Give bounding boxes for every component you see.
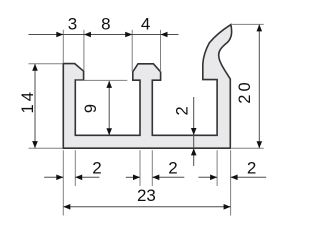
extension line: left wall top (for 14) — [29, 63, 63, 65]
dimension line: bottom-middle 2 (left tail) — [126, 176, 140, 178]
arrow: bottom-middle 2 right — [152, 175, 159, 181]
dimension line: 2 base thickness (lower) — [193, 135, 195, 166]
extension line: left wall inner edge (bottom) — [74, 150, 76, 186]
svg-text:3: 3 — [68, 14, 77, 33]
extension line: profile bottom right (for 20) — [231, 147, 263, 149]
arrow: bottom-left 2 inner — [75, 175, 82, 181]
arrow: dim 3 right / dim 8 left — [84, 32, 91, 38]
extension line: left wall outer edge (bottom) — [62, 150, 64, 215]
arrow: dim 20 bottom — [257, 141, 263, 148]
dimension line: bottom-right 2 (left tail) — [198, 176, 217, 178]
extension line: left wall head right edge — [83, 30, 85, 71]
svg-text:2: 2 — [168, 159, 177, 178]
arrow: bottom-right 2 left — [210, 175, 217, 181]
dimension line: top 3/8/4 — [29, 34, 179, 36]
extension line: profile bottom (for 14) — [29, 147, 63, 149]
dimension line: 23 overall width — [63, 206, 230, 208]
arrow: dim 9 bottom — [106, 128, 112, 135]
svg-text:2: 2 — [92, 159, 101, 178]
svg-text:4: 4 — [141, 14, 150, 33]
arrow: bottom-middle 2 left — [133, 175, 140, 181]
dimension line: 9 — [108, 81, 110, 135]
extension line: step underside (for 9) — [76, 79, 127, 81]
arrow: dim 23 left — [63, 204, 70, 210]
dimension line: bottom-right 2 (outer tail) — [231, 176, 267, 178]
extension line: right leg left edge (bottom) — [216, 150, 218, 186]
dimension line: 14 — [34, 64, 36, 148]
svg-text:9: 9 — [82, 101, 100, 113]
arrow: dim 3 left — [56, 32, 63, 38]
arrow: dim 4 right — [161, 32, 168, 38]
extruded profile cross-section body — [63, 25, 231, 149]
arrow: bottom-right 2 outer — [231, 175, 238, 181]
dimension line: bottom-left 2 (inner tail) — [75, 176, 99, 178]
arrow: dim 23 right — [224, 204, 231, 210]
arrow: dim 9 top — [106, 81, 112, 88]
arrow: dim 2 base thickness top — [191, 128, 197, 135]
extension line: right leg outer edge (bottom) — [230, 150, 232, 215]
extension line: middle stem right edge (bottom) — [151, 150, 153, 186]
svg-text:2: 2 — [173, 103, 191, 115]
extension line: left wall outer edge (top) — [62, 30, 64, 63]
svg-text:2: 2 — [247, 159, 256, 178]
dimension line: 20 — [258, 24, 260, 148]
svg-text:23: 23 — [137, 186, 156, 205]
extension line: profile top (for 20) — [232, 23, 264, 25]
extension line: middle head right edge — [160, 30, 162, 72]
extension line: middle head left edge — [131, 30, 133, 72]
dimension line: 2 base thickness (upper) — [193, 97, 195, 135]
arrow: dim 8 right / dim 4 left — [125, 32, 132, 38]
arrow: dim 14 bottom — [32, 141, 38, 148]
extension line: middle stem left edge (bottom) — [139, 150, 141, 186]
dimension line: bottom-left 2 (outer tail) — [44, 176, 63, 178]
dimension line: bottom-middle 2 (right tail) — [152, 176, 184, 178]
arrow: dim 2 base thickness bottom — [191, 148, 197, 155]
svg-text:8: 8 — [101, 14, 110, 33]
arrow: dim 14 top — [32, 64, 38, 71]
svg-text:14: 14 — [19, 89, 37, 113]
arrow: dim 20 top — [257, 24, 263, 31]
arrow: bottom-left 2 outer — [56, 175, 63, 181]
svg-text:20: 20 — [236, 79, 254, 103]
